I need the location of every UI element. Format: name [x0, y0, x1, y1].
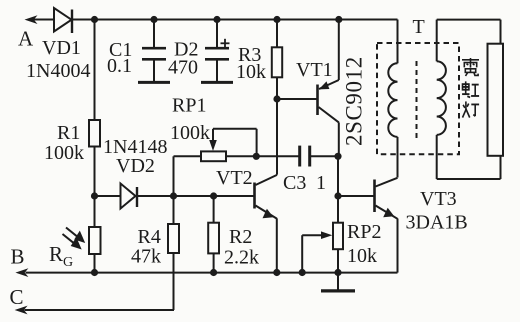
svg-text:2SC9012: 2SC9012	[342, 56, 367, 146]
char deng (lamp)	[463, 101, 480, 117]
ground under D2	[201, 81, 233, 84]
svg-text:A: A	[18, 27, 34, 51]
svg-text:100k: 100k	[170, 122, 210, 144]
capacitor D2 polarity plus	[221, 39, 230, 48]
potentiometer RP2	[333, 223, 343, 273]
capacitor C1	[142, 20, 166, 83]
svg-text:RP1: RP1	[172, 95, 206, 117]
svg-text:VT1: VT1	[296, 59, 333, 81]
junction ground node	[334, 269, 341, 276]
transformer T dashed box	[377, 43, 459, 154]
char ni (neon)	[462, 58, 479, 76]
svg-text:R1: R1	[57, 122, 80, 144]
resistor R1	[89, 120, 100, 147]
junction top-left node	[91, 16, 98, 23]
junction R4 top node	[170, 192, 177, 199]
svg-text:470: 470	[168, 57, 198, 79]
wire R3 node down to VT2 collector	[276, 99, 278, 175]
svg-text:VT2: VT2	[216, 167, 253, 189]
svg-text:1N4004: 1N4004	[26, 60, 90, 82]
svg-text:T: T	[413, 16, 425, 38]
RP2 wiper arrow	[302, 231, 332, 272]
transformer secondary winding	[437, 61, 446, 135]
junction RP2 wiper bottom	[299, 269, 306, 276]
svg-text:VT3: VT3	[420, 188, 457, 210]
label neon lamp chinese	[462, 58, 479, 118]
wire R1 to VD2 node	[94, 147, 96, 228]
wire top rail turn down to transformer primary	[397, 20, 399, 64]
diode VD1	[54, 8, 72, 33]
wire secondary bottom to lamp	[437, 135, 501, 179]
wire B rail	[26, 272, 398, 274]
junction RG bottom	[91, 269, 98, 276]
wire C rail to R4 bottom	[25, 309, 175, 311]
neon lamp tube	[488, 44, 504, 156]
svg-text:0.1: 0.1	[107, 55, 132, 77]
junction R2 top node	[210, 192, 217, 199]
transistor VT3 (NPN 3DA1B)	[375, 178, 398, 273]
char hong (rainbow)	[462, 81, 479, 97]
resistor R3	[272, 20, 282, 100]
terminal C arrowhead	[15, 306, 28, 315]
junction C3 right / VT1 collector	[334, 153, 341, 160]
junction R2 bottom	[210, 269, 217, 276]
svg-text:10k: 10k	[347, 245, 377, 267]
ground under C1	[138, 81, 170, 84]
wire ground stub	[337, 273, 339, 291]
wire VD2 to VT2 base	[136, 195, 254, 197]
potentiometer RP1	[174, 151, 300, 196]
svg-text:C3: C3	[283, 172, 306, 194]
photoresistor RG	[89, 227, 101, 254]
junction RP1 wiper node	[253, 153, 260, 160]
resistor R2	[208, 196, 219, 273]
junction VT2 emitter bottom	[273, 269, 280, 276]
wire VT1 collector down to VT3 base node	[337, 156, 339, 222]
svg-text:100k: 100k	[44, 142, 84, 164]
terminal B arrowhead	[15, 268, 28, 277]
svg-text:R2: R2	[229, 226, 252, 248]
svg-text:VD2: VD2	[116, 155, 155, 177]
wire top rail	[72, 19, 398, 21]
wire VD2 row	[95, 195, 122, 197]
capacitor C3	[300, 146, 338, 167]
junction R3 bottom / VT1 base	[273, 95, 280, 102]
resistor R4	[168, 196, 179, 310]
svg-text:RP2: RP2	[347, 221, 381, 243]
svg-text:47k: 47k	[131, 246, 161, 268]
light arrow 1	[66, 228, 85, 244]
ground	[321, 289, 355, 292]
svg-text:RG: RG	[49, 242, 73, 270]
junction VT3 base node	[334, 192, 341, 199]
transformer core dashed	[416, 61, 418, 139]
junction R3 top	[273, 16, 280, 23]
terminal A arrowhead	[25, 15, 38, 24]
junction C1 top	[150, 16, 157, 23]
wire A to VD1	[33, 19, 54, 21]
junction D2 top	[213, 16, 220, 23]
junction VT1 emitter top	[335, 16, 342, 23]
wire left vertical upper	[94, 20, 96, 121]
RP1 wiper arrow	[209, 129, 256, 157]
light arrow 2	[63, 234, 82, 250]
svg-text:B: B	[11, 245, 25, 269]
svg-text:10k: 10k	[236, 61, 266, 83]
wire VT3 base	[338, 195, 374, 197]
transistor VT2 (NPN)	[255, 175, 278, 273]
wire secondary top to lamp	[437, 20, 501, 62]
junction VD2 anode node	[91, 192, 98, 199]
svg-text:1: 1	[316, 172, 326, 194]
svg-text:C: C	[10, 285, 24, 309]
svg-text:2.2k: 2.2k	[224, 247, 259, 269]
transistor VT1 (PNP 2SC9012)	[318, 20, 339, 157]
wire VT1 base	[277, 98, 317, 100]
svg-text:3DA1B: 3DA1B	[406, 212, 468, 234]
svg-text:VD1: VD1	[42, 37, 81, 59]
diode VD2	[121, 184, 138, 209]
wire RG to B rail	[94, 254, 96, 273]
capacitor D2	[205, 20, 229, 83]
transformer primary winding	[388, 63, 397, 137]
wire primary bottom to VT3 collector	[397, 137, 399, 178]
